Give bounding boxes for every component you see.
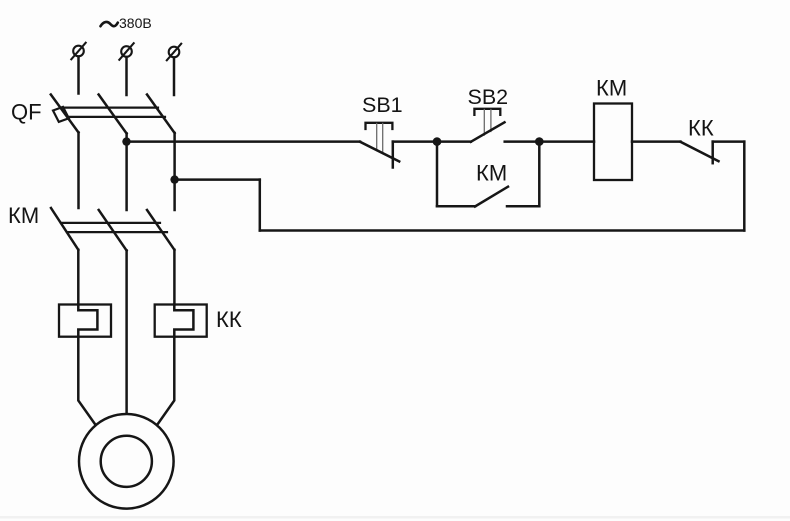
wire coil KM to KK contact	[632, 140, 681, 143]
wire KM pole2 to motor	[125, 251, 128, 415]
QF linkage bar top	[62, 106, 158, 108]
wire node B to coil KM	[539, 140, 594, 143]
wire SB1 to node A	[393, 140, 437, 143]
wire KK to right edge	[713, 140, 745, 143]
terminal L2	[119, 43, 133, 60]
AC tilde symbol	[101, 22, 118, 26]
svg-text:КМ: КМ	[596, 76, 627, 101]
wire heater1 to motor	[78, 337, 96, 426]
contactor KM pole 3 blade	[147, 210, 174, 250]
wire QF pole2 to KM pole2	[125, 134, 128, 211]
wire bottom return	[260, 229, 745, 232]
SB1 fixed contact stub	[392, 142, 395, 168]
svg-text:SB1: SB1	[362, 93, 403, 117]
KM linkage bar top	[61, 222, 160, 224]
svg-text:QF: QF	[11, 100, 42, 125]
circuit breaker QF pole 2 blade	[99, 95, 127, 134]
label KK thermal relay	[216, 307, 242, 332]
KK heater element 2 conductor detour	[174, 305, 193, 337]
KK heater element 1 conductor detour	[78, 305, 97, 337]
node junction on pole3 (control return tap)	[170, 175, 178, 183]
wire QF pole3 to KM pole3	[173, 133, 176, 210]
label KM aux contact	[476, 161, 507, 186]
SB2 plunger stems	[483, 110, 485, 136]
svg-text:КК: КК	[216, 307, 242, 332]
wire L2 to QF	[125, 57, 128, 95]
faint page edge line	[0, 516, 790, 519]
wire KM pole1 to heater 1	[77, 250, 80, 305]
wire right side drop	[743, 142, 746, 231]
KM aux branch bottom right wire	[507, 205, 539, 208]
QF actuator rectangle	[53, 107, 69, 122]
label ~380V supply	[119, 15, 152, 31]
SB1 NC contact blade	[360, 142, 399, 162]
label KM coil	[596, 76, 627, 101]
wire L3 to QF	[173, 58, 176, 96]
circuit breaker QF pole 3 blade	[147, 95, 175, 134]
KM aux branch right riser	[538, 142, 541, 207]
node A junction	[433, 137, 442, 146]
label SB1	[362, 93, 403, 117]
svg-text:КМ: КМ	[476, 161, 507, 186]
contactor coil KM	[594, 104, 632, 181]
wire KM pole3 to heater 2	[173, 250, 176, 305]
svg-text:КМ: КМ	[8, 203, 39, 228]
svg-text:380В: 380В	[119, 15, 152, 31]
motor M outer circle	[79, 414, 174, 509]
contactor KM pole 2 blade	[99, 210, 127, 251]
KM auxiliary contact branch left drop	[436, 142, 439, 207]
pushbutton SB1 actuator bracket	[366, 123, 393, 129]
QF linkage bar bottom	[68, 116, 165, 118]
KM linkage bar bottom	[67, 231, 167, 233]
wire control rail from pole2 tap to SB1	[127, 140, 361, 143]
wire node A to SB2	[437, 140, 471, 143]
label KM contactor	[8, 203, 39, 228]
terminal L3	[167, 44, 181, 61]
wire left riser of return	[259, 180, 262, 231]
circuit breaker QF pole 1 blade	[51, 95, 79, 133]
pushbutton SB2 actuator bracket	[474, 109, 500, 115]
node B junction	[535, 137, 544, 146]
SB2 NO contact blade	[471, 122, 505, 142]
node junction on pole2 (control tap)	[122, 137, 130, 145]
KM auxiliary NO contact blade	[475, 187, 508, 207]
contactor KM pole 1 blade	[51, 208, 78, 250]
wire SB2 to node B	[505, 140, 540, 143]
terminal L1	[71, 43, 85, 60]
wire heater2 to motor	[157, 337, 174, 426]
svg-text:КК: КК	[688, 116, 714, 141]
wire return to pole3 tap	[175, 178, 260, 181]
label QF	[11, 100, 42, 125]
KM aux branch bottom left wire	[437, 205, 475, 208]
label KK contact	[688, 116, 714, 141]
KK contact fixed stub	[711, 142, 714, 164]
svg-text:SB2: SB2	[468, 85, 509, 109]
label SB2	[468, 85, 509, 109]
wire L1 to QF	[77, 57, 80, 94]
motor M inner circle	[101, 436, 152, 487]
thermal relay KK heater element 2 box	[155, 305, 207, 337]
thermal relay KK NC contact blade	[681, 142, 719, 161]
thermal relay KK heater element 1 box	[59, 305, 111, 337]
SB1 plunger stems	[376, 124, 378, 151]
wire QF pole1 to KM pole1	[77, 133, 80, 209]
